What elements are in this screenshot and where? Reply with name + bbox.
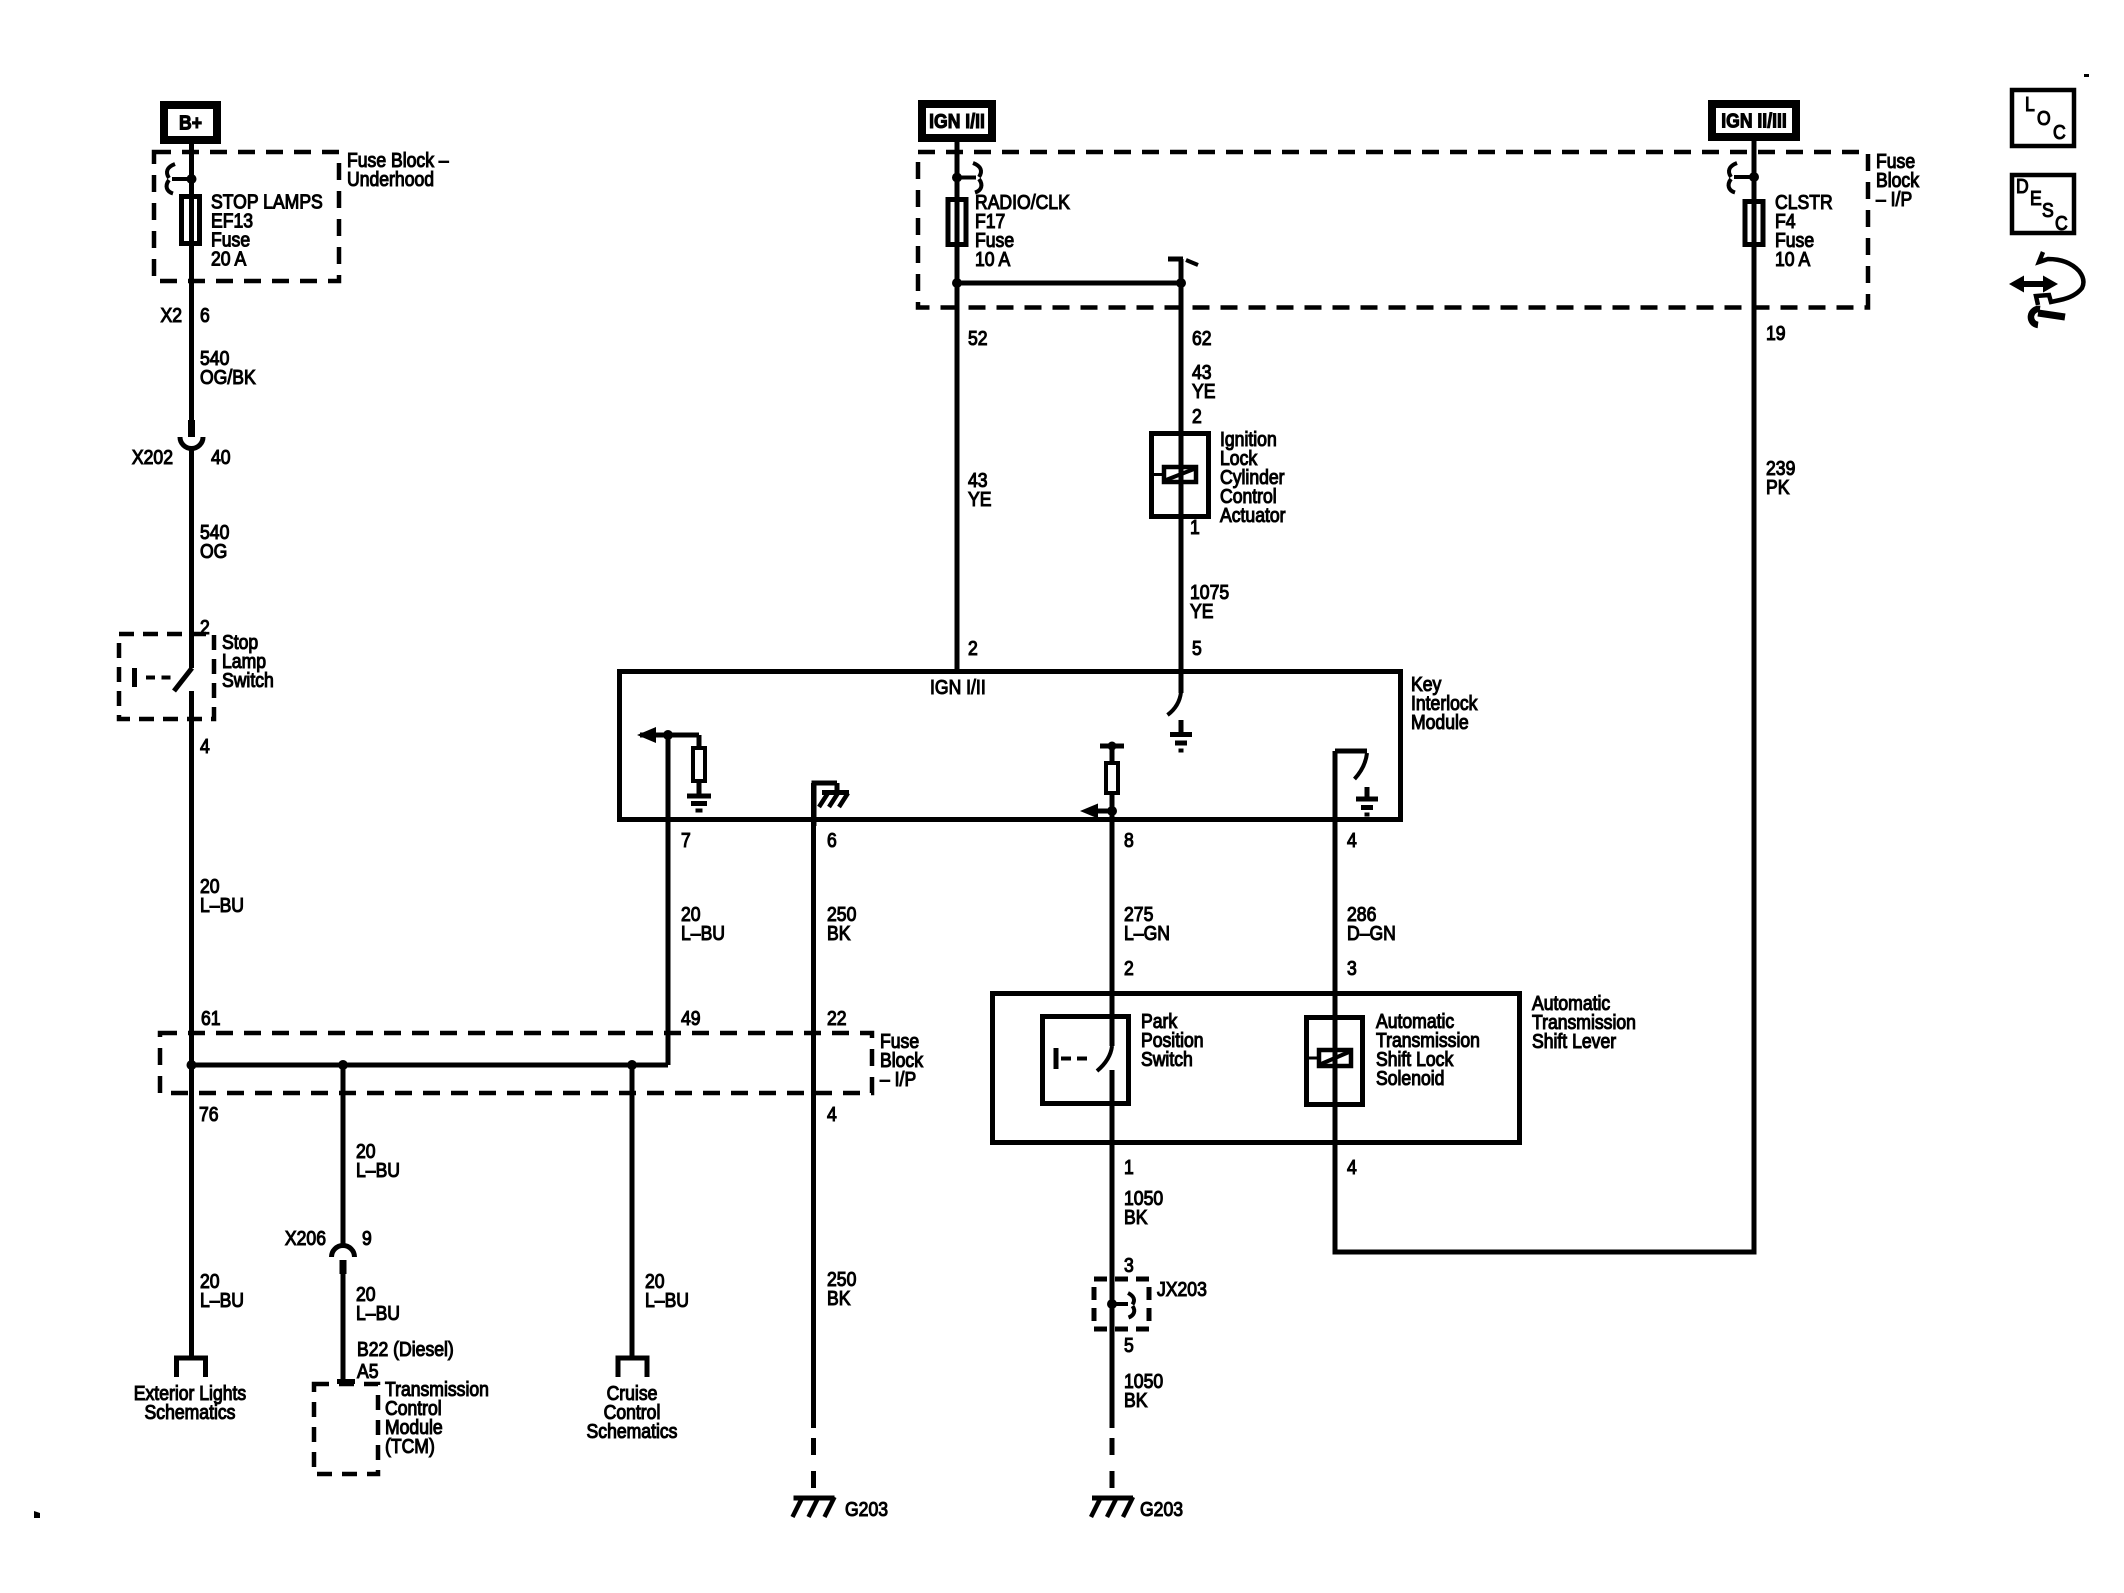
svg-text:D–GN: D–GN (1347, 922, 1396, 944)
svg-text:BK: BK (827, 1287, 851, 1309)
svg-text:D: D (2016, 175, 2029, 197)
svg-text:BK: BK (1124, 1206, 1148, 1228)
svg-text:8: 8 (1124, 829, 1134, 851)
svg-text:O: O (2037, 107, 2051, 129)
svg-text:4: 4 (1347, 829, 1357, 851)
svg-text:– I/P: – I/P (1876, 188, 1912, 210)
svg-text:A5: A5 (357, 1360, 379, 1382)
svg-text:9: 9 (362, 1227, 372, 1249)
svg-text:Solenoid: Solenoid (1376, 1067, 1444, 1089)
svg-text:X206: X206 (285, 1227, 326, 1249)
svg-text:6: 6 (827, 829, 837, 851)
svg-text:L–GN: L–GN (1124, 922, 1170, 944)
svg-text:L–BU: L–BU (356, 1159, 400, 1181)
svg-text:4: 4 (827, 1103, 837, 1125)
svg-text:49: 49 (681, 1007, 701, 1029)
svg-text:S: S (2042, 199, 2054, 221)
svg-text:L–BU: L–BU (200, 1289, 244, 1311)
svg-text:IGN I/II: IGN I/II (929, 110, 985, 132)
svg-text:3: 3 (1124, 1254, 1134, 1276)
svg-text:BK: BK (1124, 1389, 1148, 1411)
svg-text:G203: G203 (845, 1498, 888, 1520)
svg-text:76: 76 (199, 1103, 219, 1125)
svg-text:YE: YE (1190, 600, 1213, 622)
svg-text:6: 6 (200, 304, 210, 326)
svg-text:C: C (2055, 212, 2068, 234)
svg-text:Switch: Switch (222, 669, 274, 691)
svg-text:3: 3 (1347, 957, 1357, 979)
svg-text:Switch: Switch (1141, 1048, 1193, 1070)
svg-text:OG/BK: OG/BK (200, 366, 256, 388)
svg-text:X202: X202 (132, 446, 173, 468)
svg-text:L–BU: L–BU (681, 922, 725, 944)
svg-text:Module: Module (1411, 711, 1469, 733)
svg-text:Actuator: Actuator (1220, 504, 1286, 526)
svg-text:Schematics: Schematics (145, 1401, 236, 1423)
svg-text:B+: B+ (179, 111, 202, 133)
svg-text:1: 1 (1124, 1156, 1134, 1178)
svg-text:B22 (Diesel): B22 (Diesel) (357, 1338, 454, 1360)
svg-text:JX203: JX203 (1157, 1278, 1207, 1300)
svg-text:22: 22 (827, 1007, 847, 1029)
svg-text:IGN II/III: IGN II/III (1721, 109, 1786, 131)
svg-text:L: L (2025, 93, 2035, 115)
svg-text:Shift Lever: Shift Lever (1532, 1030, 1616, 1052)
svg-text:2: 2 (1124, 957, 1134, 979)
svg-text:2: 2 (968, 637, 978, 659)
svg-text:YE: YE (968, 488, 991, 510)
svg-text:10 A: 10 A (975, 248, 1011, 270)
svg-text:Underhood: Underhood (347, 168, 434, 190)
svg-text:(TCM): (TCM) (385, 1435, 435, 1457)
svg-text:19: 19 (1766, 322, 1786, 344)
svg-text:L–BU: L–BU (645, 1289, 689, 1311)
svg-text:4: 4 (200, 735, 210, 757)
svg-text:Schematics: Schematics (587, 1420, 678, 1442)
svg-text:40: 40 (211, 446, 231, 468)
svg-text:X2: X2 (160, 304, 182, 326)
svg-text:4: 4 (1347, 1156, 1357, 1178)
svg-text:10 A: 10 A (1775, 248, 1811, 270)
svg-text:C: C (2053, 121, 2066, 143)
svg-text:PK: PK (1766, 476, 1790, 498)
svg-text:61: 61 (201, 1007, 221, 1029)
svg-text:YE: YE (1192, 380, 1215, 402)
svg-text:2: 2 (200, 616, 210, 638)
svg-text:5: 5 (1124, 1334, 1134, 1356)
svg-text:20 A: 20 A (211, 247, 247, 269)
svg-text:E: E (2030, 187, 2042, 209)
svg-text:G203: G203 (1140, 1498, 1183, 1520)
svg-text:52: 52 (968, 327, 988, 349)
svg-text:IGN I/II: IGN I/II (930, 676, 986, 698)
svg-text:62: 62 (1192, 327, 1212, 349)
svg-text:OG: OG (200, 540, 227, 562)
svg-text:L–BU: L–BU (200, 894, 244, 916)
svg-text:7: 7 (681, 829, 691, 851)
svg-text:L–BU: L–BU (356, 1302, 400, 1324)
svg-text:1: 1 (1190, 516, 1200, 538)
svg-text:– I/P: – I/P (880, 1068, 916, 1090)
svg-text:5: 5 (1192, 637, 1202, 659)
svg-text:BK: BK (827, 922, 851, 944)
svg-text:2: 2 (1192, 405, 1202, 427)
